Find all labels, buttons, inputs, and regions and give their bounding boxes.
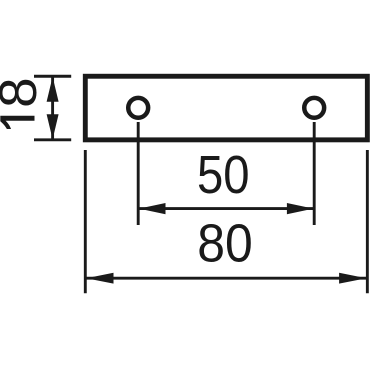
arrowhead 50 right bbox=[287, 203, 314, 214]
arrowhead 18 down bbox=[47, 114, 59, 139]
extension line bottom (18 dim) bbox=[34, 138, 71, 141]
extension line top (18 dim) bbox=[34, 75, 71, 78]
hole left bbox=[128, 98, 148, 118]
extension line below left plate edge (80 dim) bbox=[84, 150, 87, 293]
hole right bbox=[304, 98, 324, 118]
dimension line 18 bbox=[51, 76, 54, 140]
arrowhead 80 right bbox=[339, 273, 366, 284]
dim text 18 digit 1 (rotated, custom path) bbox=[0, 116, 34, 129]
dimension line 80 bbox=[85, 277, 367, 280]
arrowhead 80 left bbox=[86, 273, 113, 284]
extension line below right hole (50 dim) bbox=[313, 122, 316, 225]
svg-text:50: 50 bbox=[197, 146, 250, 205]
svg-text:8: 8 bbox=[0, 77, 48, 108]
svg-text:80: 80 bbox=[197, 215, 253, 274]
extension line below right plate edge (80 dim) bbox=[366, 150, 369, 293]
arrowhead 50 left bbox=[139, 203, 166, 214]
arrowhead 18 up bbox=[47, 77, 59, 102]
part outline (plate) bbox=[85, 76, 367, 140]
dimension line 50 bbox=[138, 207, 314, 210]
extension line below left hole (50 dim) bbox=[137, 122, 140, 225]
